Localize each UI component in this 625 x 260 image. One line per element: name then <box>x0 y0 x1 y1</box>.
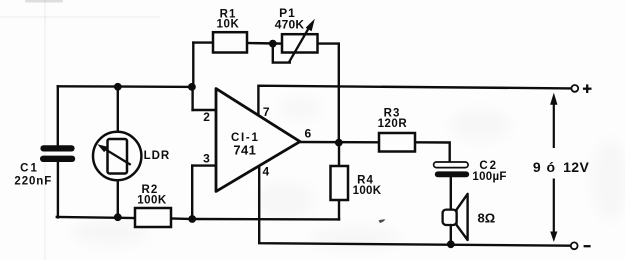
svg-text:4: 4 <box>262 165 269 179</box>
svg-text:8Ω: 8Ω <box>478 211 496 226</box>
svg-text:7: 7 <box>263 105 270 119</box>
svg-text:ó: ó <box>547 159 556 175</box>
svg-text:3: 3 <box>203 152 210 166</box>
svg-text:9: 9 <box>533 159 541 175</box>
svg-text:C1: C1 <box>20 163 39 175</box>
svg-text:470K: 470K <box>275 18 305 32</box>
svg-text:12V: 12V <box>563 159 589 175</box>
svg-text:6: 6 <box>304 127 311 141</box>
svg-text:220nF: 220nF <box>14 175 52 187</box>
svg-text:10K: 10K <box>217 19 240 31</box>
svg-text:LDR: LDR <box>144 150 171 162</box>
svg-text:120R: 120R <box>378 118 408 130</box>
svg-text:100K: 100K <box>353 185 382 197</box>
svg-text:2: 2 <box>203 110 210 124</box>
svg-text:100µF: 100µF <box>472 171 506 183</box>
svg-text:100K: 100K <box>137 194 167 206</box>
svg-text:741: 741 <box>233 142 256 157</box>
